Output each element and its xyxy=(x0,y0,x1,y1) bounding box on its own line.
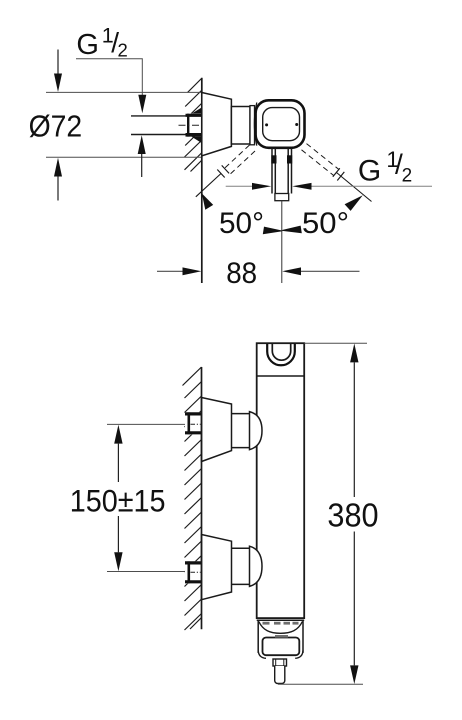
union nut flares xyxy=(192,107,203,114)
svg-text:380: 380 xyxy=(327,496,378,533)
upper union pipe xyxy=(232,414,250,448)
svg-text:G: G xyxy=(76,29,99,61)
G 1/2 right label xyxy=(358,147,412,188)
supply pipe (in-wall thread) xyxy=(131,117,186,134)
shower hose holder outer xyxy=(267,344,295,365)
shower hose holder inner xyxy=(272,344,290,360)
svg-text:50°: 50° xyxy=(219,207,264,240)
ghost tube right end caps xyxy=(333,168,345,180)
lower union pipe xyxy=(232,548,250,584)
Ø72 bottom extension line xyxy=(46,156,202,158)
outlet inner gray band xyxy=(275,635,288,638)
G 1/2 leader line xyxy=(76,59,142,95)
G 1/2 leader arrow xyxy=(138,95,146,114)
handle skirt xyxy=(254,103,256,146)
right angle arrow xyxy=(345,195,363,211)
outlet housing outer xyxy=(258,620,303,653)
G 1/2 top label xyxy=(76,23,127,61)
upper union in-wall pipe xyxy=(185,412,202,434)
outlet center line xyxy=(281,201,283,283)
ghost tube right center line xyxy=(337,173,372,202)
handle pivot dots xyxy=(265,123,268,126)
outlet thread blocks xyxy=(271,155,276,163)
svg-text:G: G xyxy=(358,154,381,187)
valve body collar xyxy=(250,106,255,145)
outlet housing gray ticks xyxy=(263,622,299,625)
88 dimension right arrow xyxy=(282,267,359,275)
escutcheon (side view) xyxy=(202,93,232,156)
Ø72 upper arrow xyxy=(54,50,62,93)
svg-text:150±15: 150±15 xyxy=(70,482,166,518)
380 bottom extension line xyxy=(278,683,363,685)
svg-text:50°: 50° xyxy=(302,207,349,240)
pipe center line xyxy=(179,124,203,126)
outlet feet xyxy=(258,651,266,659)
380 dimension line with arrows xyxy=(350,344,358,685)
ghost tube left center line xyxy=(196,174,221,197)
150 dimension line with arrows xyxy=(114,425,122,572)
svg-text:2: 2 xyxy=(118,39,128,60)
wall hatching (top view) xyxy=(185,79,202,172)
mixer body xyxy=(257,343,305,618)
svg-text:88: 88 xyxy=(226,257,257,290)
ghost tube left end caps xyxy=(217,165,229,177)
upper union escutcheon xyxy=(202,398,232,462)
Ø72 lower arrow xyxy=(54,158,62,201)
lower union escutcheon xyxy=(202,535,232,600)
wall line (bottom view) xyxy=(201,367,203,629)
outlet nipple lower xyxy=(275,666,285,684)
outlet inner cup xyxy=(263,638,300,656)
Ø72 top extension line xyxy=(46,91,202,93)
380 top extension line xyxy=(304,342,367,344)
outlet nipple upper xyxy=(273,659,287,666)
outlet tailpiece outer lines xyxy=(272,148,292,193)
150 dim upper extension line xyxy=(107,423,188,425)
lower union nut xyxy=(250,546,263,586)
wall line (top view) xyxy=(201,78,203,283)
handle outer xyxy=(256,100,305,148)
valve body xyxy=(231,107,250,145)
wall hatching (bottom view) xyxy=(183,367,202,630)
ghost tube right dashed edges xyxy=(302,144,339,176)
union nut box xyxy=(186,114,203,137)
lower union in-wall pipe xyxy=(185,561,202,583)
union nut face line xyxy=(187,114,189,137)
body cap seam xyxy=(257,375,305,377)
outlet housing smile xyxy=(259,622,303,634)
left angle arrow xyxy=(202,193,213,209)
88 dimension left arrow xyxy=(157,267,201,275)
svg-text:Ø72: Ø72 xyxy=(29,109,83,143)
angle arc arrows at center line xyxy=(263,227,283,235)
150 dim lower extension line xyxy=(107,571,188,573)
svg-text:2: 2 xyxy=(402,165,413,186)
upper union nut xyxy=(250,412,263,450)
outlet G1/2 dimension line left xyxy=(226,183,272,190)
outlet end cap xyxy=(275,194,289,201)
ghost tube left dashed edges xyxy=(223,145,256,176)
handle inner xyxy=(263,108,300,141)
outlet G1/2 dimension line right xyxy=(292,183,432,190)
thread pipe lower arrow xyxy=(138,135,146,177)
